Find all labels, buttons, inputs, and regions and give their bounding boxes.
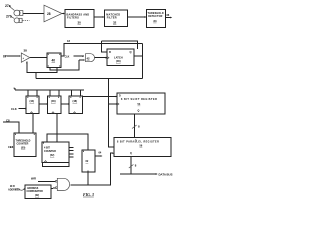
svg-text:42: 42 [87, 56, 91, 60]
svg-text:R: R [109, 50, 111, 54]
svg-text:27a: 27a [5, 4, 11, 8]
svg-text:ADDRESS: ADDRESS [8, 189, 20, 192]
svg-text:18: 18 [67, 39, 70, 43]
svg-text:8 BIT SHIFT REGISTER: 8 BIT SHIFT REGISTER [121, 98, 157, 101]
svg-text:COMPARATOR: COMPARATOR [27, 190, 44, 193]
svg-text:28: 28 [47, 12, 51, 16]
svg-text:(46): (46) [116, 59, 121, 63]
svg-text:(62): (62) [35, 195, 39, 197]
svg-text:8 BIT PARALLEL REGISTER: 8 BIT PARALLEL REGISTER [117, 140, 159, 143]
svg-text:D: D [119, 95, 121, 98]
svg-text:+: + [23, 56, 25, 60]
svg-text:(48): (48) [73, 99, 78, 103]
svg-text:FIG. 3: FIG. 3 [83, 193, 94, 197]
svg-text:C8: C8 [6, 119, 10, 123]
svg-text:32: 32 [113, 20, 117, 24]
svg-text:FILTER: FILTER [107, 16, 117, 19]
svg-text:CLK: CLK [8, 145, 13, 149]
svg-text:COUNTER: COUNTER [17, 143, 29, 146]
svg-text:(44): (44) [30, 99, 35, 103]
svg-text:W/R: W/R [31, 177, 36, 181]
svg-text:(46): (46) [51, 99, 56, 103]
svg-text:27b: 27b [6, 15, 12, 19]
svg-text:30: 30 [78, 21, 82, 25]
svg-text:CLK: CLK [11, 107, 17, 111]
svg-text:8: 8 [138, 125, 140, 129]
svg-text:DATA BUS: DATA BUS [159, 173, 173, 177]
svg-text:Q: Q [130, 50, 132, 54]
svg-text:34: 34 [153, 19, 157, 23]
svg-text:62: 62 [86, 160, 89, 163]
svg-text:64: 64 [99, 152, 102, 155]
svg-text:ADDRESS: ADDRESS [27, 187, 39, 190]
svg-text:40: 40 [52, 59, 56, 63]
svg-text:38: 38 [24, 49, 28, 53]
svg-text:LATCH: LATCH [114, 56, 123, 60]
svg-text:8: 8 [135, 164, 137, 168]
svg-text:Q: Q [130, 153, 132, 155]
svg-text:(52): (52) [50, 154, 54, 157]
svg-text:56: 56 [140, 145, 143, 148]
svg-text:36: 36 [166, 13, 169, 17]
svg-text:DETECTOR: DETECTOR [148, 15, 162, 18]
svg-text:54: 54 [138, 103, 141, 106]
svg-text:Q: Q [138, 110, 140, 113]
svg-text:FILTERS: FILTERS [67, 16, 79, 19]
svg-text:COUNTER: COUNTER [44, 150, 56, 153]
svg-text:CLK: CLK [65, 56, 70, 59]
svg-text:(50): (50) [21, 147, 25, 150]
